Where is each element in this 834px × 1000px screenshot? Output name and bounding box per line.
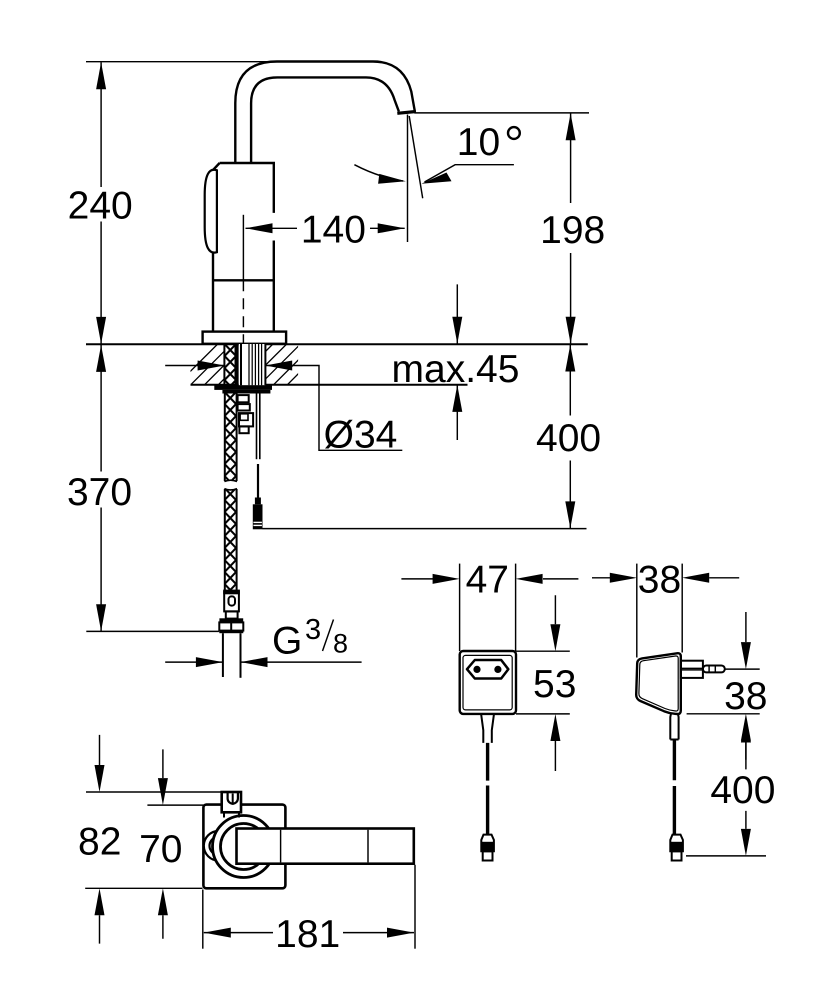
dimension max45 arrows [456, 284, 458, 440]
svg-text:53: 53 [533, 663, 576, 706]
spout bar tick 2 [367, 830, 369, 863]
dimension 181 line [204, 932, 414, 934]
svg-text:240: 240 [68, 185, 133, 228]
svg-text:181: 181 [275, 913, 340, 956]
G 3/8 dimension arrows [165, 661, 361, 663]
mounting nut [214, 385, 272, 390]
extension line at outlet height [414, 112, 589, 114]
wall plug body inner line [639, 656, 678, 711]
svg-text:140: 140 [301, 209, 366, 252]
faucet body outline [213, 163, 274, 332]
svg-text:70: 70 [139, 828, 182, 871]
dimension 47 arrows [401, 578, 578, 580]
swivel arc [354, 165, 403, 181]
control box cable gland [481, 714, 494, 743]
svg-text:370: 370 [67, 471, 132, 514]
plug pin [703, 666, 725, 673]
top extension line at spout height [86, 61, 279, 63]
body center line dashed part [242, 280, 244, 344]
extension line plate top [147, 804, 203, 806]
svg-text:47: 47 [466, 559, 509, 602]
escutcheon plate top view [203, 805, 285, 889]
svg-text:38: 38 [724, 675, 767, 718]
counter deck bottom line [191, 384, 468, 386]
plug pin base [681, 661, 703, 678]
extension line at cable end [262, 528, 586, 530]
hose end fitting [224, 591, 239, 612]
lever neck [223, 812, 225, 817]
extension line at right cable end [686, 855, 766, 857]
sensor cable twin leads [256, 394, 258, 460]
hose edge thick line [236, 344, 239, 385]
svg-text:max.45: max.45 [392, 348, 520, 391]
counter deck top line [86, 343, 588, 345]
threaded mounting shank [239, 344, 266, 385]
spout outlet 10 degree line [409, 116, 423, 198]
svg-text:8: 8 [333, 629, 348, 659]
dimension 38 right extension lines [725, 668, 760, 670]
euro socket face [467, 660, 508, 679]
extension line below hose [86, 630, 219, 632]
faucet body outer circle [213, 816, 275, 878]
svg-text:198: 198 [540, 209, 605, 252]
braided hose through deck [224, 344, 235, 385]
dimension 82 arrows [99, 735, 101, 944]
sensor bump outer [204, 831, 234, 861]
dimension 38 top arrows [592, 577, 739, 579]
dimension 400 right line [745, 743, 747, 829]
control box 47 extension lines [459, 564, 461, 651]
faucet spout inner contour [251, 77, 399, 163]
svg-text:400: 400 [710, 769, 775, 812]
connection tailpipe [222, 633, 224, 677]
braided hose upper segment [225, 394, 237, 482]
braided hose lower segment [225, 489, 237, 590]
dimension 53 arrows [554, 595, 556, 771]
dimension 38 right arrows [745, 612, 747, 760]
sensor cable single lead [257, 464, 259, 498]
dimension 198 line [570, 113, 572, 344]
svg-text:G: G [272, 620, 302, 663]
deck section hatching [177, 344, 328, 385]
check valve assembly [238, 395, 249, 402]
body center line solid part [242, 215, 244, 280]
wall plug 38 extension lines [636, 564, 638, 658]
dimension 370 line [100, 345, 102, 631]
G3/8 coupling nut [219, 618, 243, 622]
spout outlet vertical reference line [407, 115, 409, 243]
wall plug cable [673, 740, 676, 835]
extension line lever top [86, 791, 222, 793]
faucet spout outer contour [235, 62, 414, 164]
dimension 140 line [246, 227, 405, 229]
spout top view bar [237, 829, 414, 864]
10 degree leader [425, 165, 514, 182]
control box body [460, 651, 516, 714]
svg-text:82: 82 [78, 820, 121, 863]
svg-text:3: 3 [305, 614, 321, 646]
diameter 34 leader [165, 366, 402, 451]
dimension 53 extension lines [516, 650, 570, 652]
socket pin holes [473, 666, 480, 673]
wall plug cable connector [670, 835, 683, 852]
sensor cable connector [255, 498, 261, 505]
control box cable connector [481, 835, 494, 852]
extension line plate bottom [85, 887, 202, 889]
svg-text:10: 10 [457, 121, 500, 164]
body joint line [213, 279, 274, 281]
wall plug body outer [636, 653, 681, 714]
dimension 400 faucet line [569, 345, 571, 529]
wall plug cable gland [670, 714, 678, 740]
spout outlet aerator tip [397, 112, 416, 114]
sensor bump inner [210, 837, 228, 855]
dimension 70 arrows [162, 749, 164, 938]
spout bar tick 1 [280, 830, 282, 863]
sensor lens window [205, 170, 217, 253]
mixing lever tab [222, 792, 241, 812]
faucet body inner circle [221, 824, 267, 870]
dimension 240 line [100, 62, 102, 344]
dimension 181 extension lines [202, 890, 204, 949]
control box cable [486, 743, 489, 835]
svg-text:Ø34: Ø34 [324, 414, 398, 457]
svg-text:38: 38 [638, 559, 681, 602]
svg-text:400: 400 [536, 417, 601, 460]
base plate [203, 332, 287, 344]
